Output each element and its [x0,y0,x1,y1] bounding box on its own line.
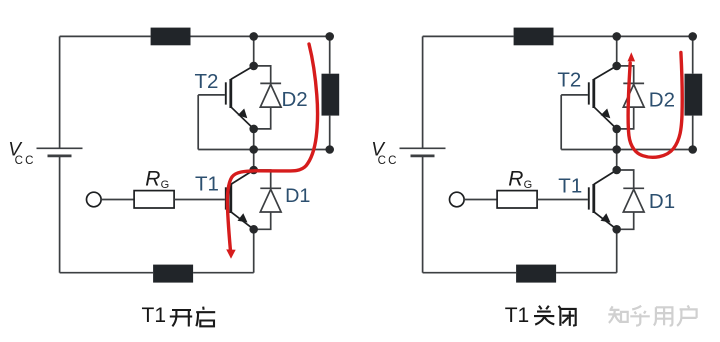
wire: top rail left segment [60,35,151,37]
node: T1 collector / D1 [249,166,258,175]
node: T2 emitter / D2 [612,125,621,134]
wire: mid vertical top node to T2 collector [616,36,618,66]
wire: left vertical above battery [422,36,424,148]
transistor T1 (IGBT) [589,170,617,229]
wire: T2 gate return [197,95,199,150]
wire: bottom rail left segment [60,272,154,274]
label RG [145,167,169,191]
node: load bottom [688,145,697,154]
node: T1 emitter / D1 [612,225,621,234]
wire: RG to T1 gate [174,199,225,201]
wire: load branch vertical top [692,36,694,73]
battery Vcc plates [37,148,83,156]
wire: mid vertical T1 emitter to bottom rail [253,229,255,272]
caption glyph 闭 [559,306,576,326]
svg-text:G: G [161,179,170,191]
node: load bottom [325,145,334,154]
transistor T2 (IGBT) [589,66,617,129]
node: top rail / load branch [688,32,697,41]
caption glyph 启 [196,307,215,327]
svg-text:R: R [145,167,160,190]
gate drive source circle [450,192,465,207]
node: T2 emitter / D2 [249,125,258,134]
wire: phase line [561,149,693,151]
node: top rail / mid branch [249,32,258,41]
node: top rail / mid branch [612,32,621,41]
node: T2 collector / D2 [249,62,258,71]
resistor RG [497,191,537,208]
battery Vcc plates [400,148,446,156]
resistor RG [134,191,174,208]
wire: T2 gate lead [561,94,588,96]
watermark glyph 知 [608,306,627,323]
wire: T2 gate return [560,95,562,150]
svg-text:D2: D2 [649,88,675,111]
red arrowhead (up) [628,52,636,61]
wire: mid vertical T2 emitter to T1 collector [253,129,255,170]
node: top rail / load branch [325,32,334,41]
wire: left vertical below battery [422,156,424,273]
red current path (T1 turn-on) [227,44,317,250]
watermark glyph 户 [677,305,697,326]
diode D2 [254,66,281,129]
wire: load branch vertical top [329,36,331,73]
junction node dots [249,32,334,234]
svg-text:D2: D2 [282,88,308,111]
load resistor block [685,74,703,116]
wire: top rail right segment [554,35,693,37]
diode D1 [617,170,644,229]
svg-text:T1: T1 [558,174,582,197]
svg-text:R: R [508,167,523,190]
wire: bottom rail left segment [423,272,516,274]
node: phase junction [249,145,258,154]
wire: top rail right segment [191,35,330,37]
wire: circle to RG [101,199,134,201]
wire: left vertical below battery [59,156,61,273]
watermark glyph 乎 [630,306,650,326]
svg-text:T2: T2 [557,68,581,91]
wire: load branch vertical bottom [329,116,331,150]
wire: circle to RG [464,199,497,201]
red current path (T1 turn-off, freewheel through D2) [628,53,682,158]
wire: top rail left segment [423,35,514,37]
watermark glyph 用 [654,307,673,325]
node: T1 collector / D1 [612,166,621,175]
node: phase junction [612,145,621,154]
svg-text:T2: T2 [195,70,219,93]
label Vcc [8,139,35,167]
wire: T2 gate lead [198,94,225,96]
wire: RG to T1 gate [537,199,588,201]
label Vcc [371,139,398,167]
node: T2 collector / D2 [612,62,621,71]
label RG [508,167,532,191]
caption glyph 关 [534,306,554,325]
wire: bottom rail right segment [556,272,617,274]
svg-text:T1: T1 [142,304,167,327]
wire: mid vertical top node to T2 collector [253,36,255,66]
red arrowhead (down) [226,249,236,258]
resistor (top stray-inductance block) [514,28,554,46]
svg-text:T1: T1 [505,304,530,327]
svg-text:D1: D1 [649,190,675,213]
resistor (top stray-inductance block) [151,28,191,46]
caption glyph 开 [170,310,192,327]
resistor (bottom stray-inductance block) [153,265,193,283]
wire: mid vertical T1 emitter to bottom rail [616,229,618,272]
diode D2 [617,66,644,129]
gate drive source circle [87,192,102,207]
resistor (bottom stray-inductance block) [516,265,556,283]
wire: load branch vertical bottom [692,116,694,150]
svg-text:G: G [524,179,533,191]
transistor T2 (IGBT) [226,66,254,129]
node: T1 emitter / D1 [249,225,258,234]
transistor T1 (IGBT) [226,170,254,229]
svg-text:D1: D1 [285,185,310,207]
svg-text:CC: CC [378,155,399,167]
diode D1 [254,170,281,229]
wire: mid vertical T2 emitter to T1 collector [616,129,618,170]
wire: left vertical above battery [59,36,61,148]
wire: bottom rail right segment [193,272,254,274]
wire: phase line [198,149,330,151]
svg-text:T1: T1 [195,172,219,195]
svg-text:CC: CC [15,155,36,167]
load resistor block [322,74,340,116]
junction node dots [612,32,697,234]
